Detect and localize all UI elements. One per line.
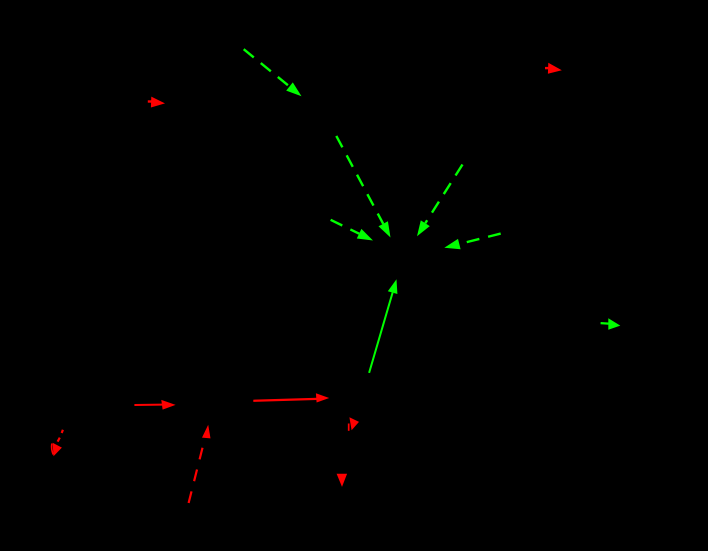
- red solid edge K (long arrow, lower middle): [253, 393, 329, 402]
- green solid edge H (long arrow up into hub node): [369, 279, 397, 373]
- green dashed edge C (top middle, arrow down-right): [244, 49, 302, 96]
- green arrow I (short arrow, middle right): [601, 318, 621, 330]
- red dashed curved edge O with arrowhead (far bottom left): [52, 430, 63, 457]
- green dashed edge E (from upper right into hub node): [417, 165, 463, 237]
- red arrowhead N (down-pointing, below node): [337, 474, 348, 487]
- red arrowhead M (small arrow up-right into node): [349, 417, 359, 431]
- green dashed edge G (from right into hub node): [444, 234, 500, 250]
- green dashed edge D (long diagonal into hub node): [336, 136, 390, 238]
- green dashed edge F (from left into hub node): [331, 220, 373, 241]
- red arrowhead B (edge into invisible node, right upper): [545, 63, 562, 74]
- red dashed edge L (arrow up from bottom): [189, 425, 211, 503]
- red arrowhead A (edge into invisible node, left upper): [148, 97, 165, 108]
- red solid edge J (short arrow, lower left): [134, 400, 175, 410]
